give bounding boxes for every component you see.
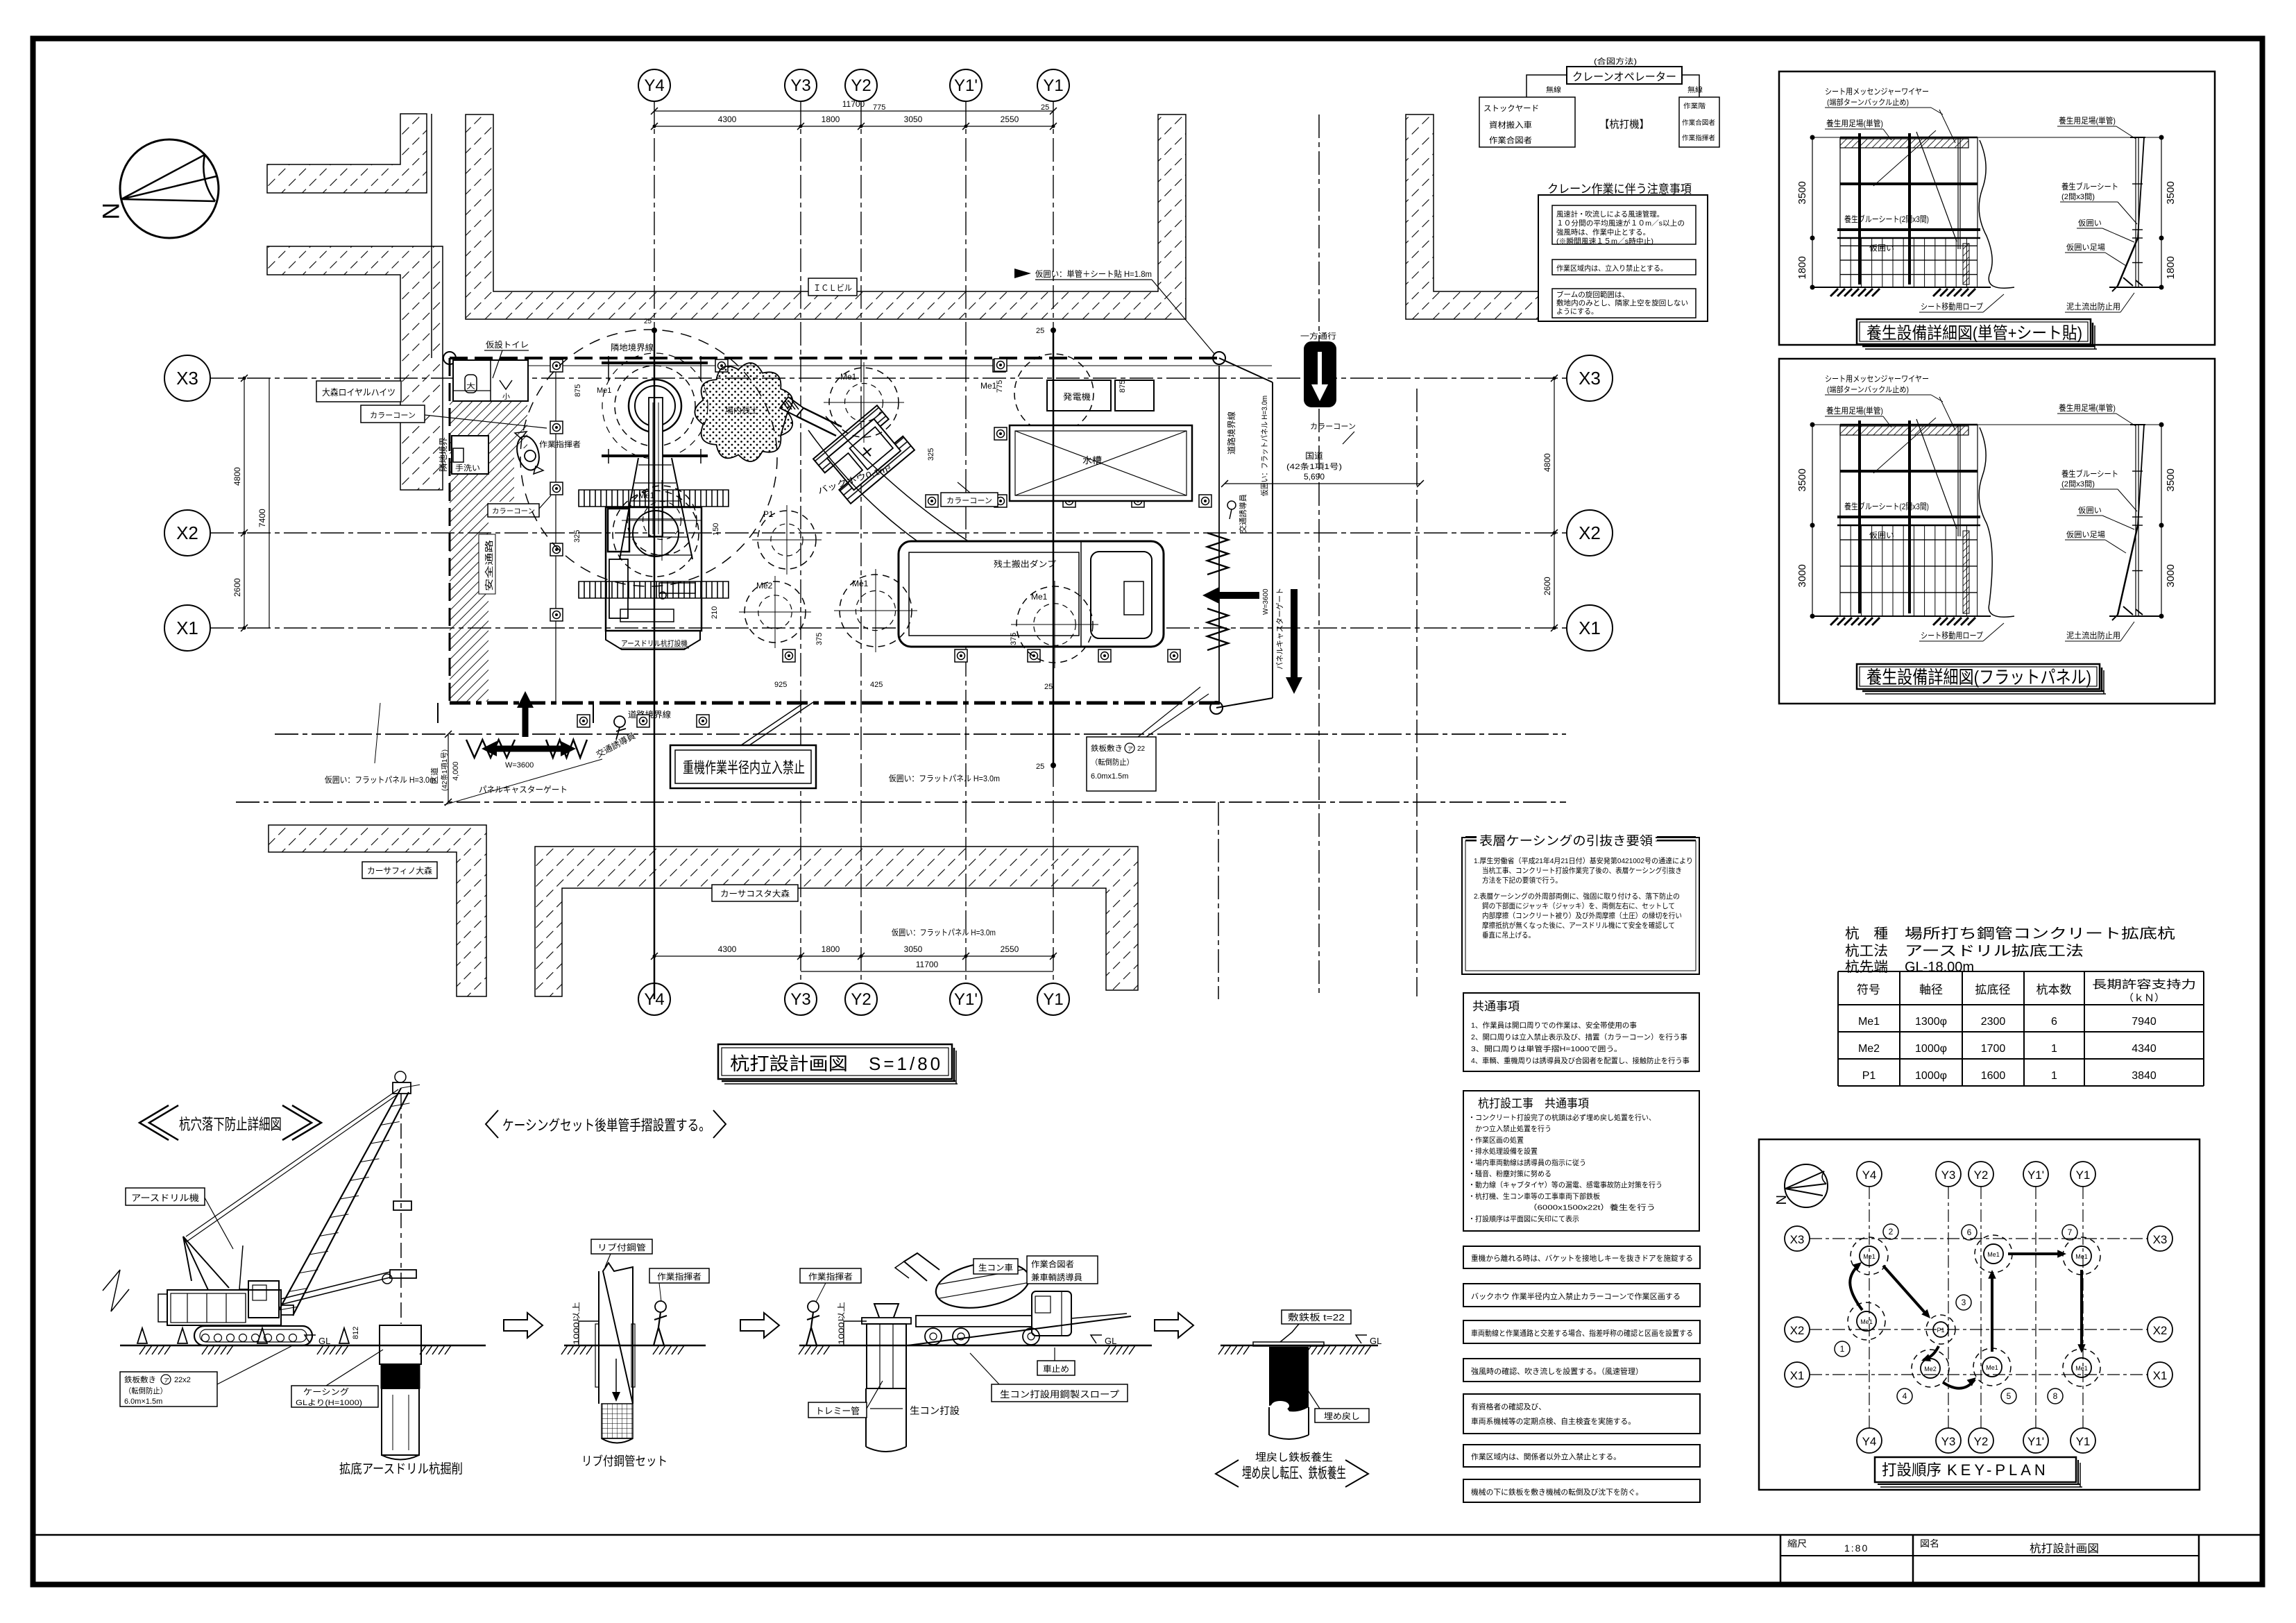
svg-text:Y4: Y4 (1862, 1435, 1877, 1448)
svg-text:4300: 4300 (718, 944, 737, 954)
svg-text:仮囲い：フラットパネル H=3.0m: 仮囲い：フラットパネル H=3.0m (325, 775, 436, 785)
svg-text:交通誘導員: 交通誘導員 (1238, 494, 1248, 533)
svg-text:養生用足場(単管): 養生用足場(単管) (2059, 402, 2116, 413)
svg-text:1000φ: 1000φ (1915, 1043, 1947, 1055)
svg-text:埋め戻し: 埋め戻し (1324, 1411, 1360, 1421)
svg-text:1600: 1600 (1981, 1070, 2006, 1082)
svg-text:1300φ: 1300φ (1915, 1016, 1947, 1028)
svg-text:Me1: Me1 (1987, 1251, 2000, 1258)
svg-text:１０分間の平均風速が１０m／s以上の: １０分間の平均風速が１０m／s以上の (1556, 219, 1685, 228)
svg-text:強風時は、作業中止とする。: 強風時は、作業中止とする。 (1556, 228, 1650, 237)
svg-text:P1: P1 (1937, 1327, 1944, 1334)
svg-text:2、開口周りは立入禁止表示及び、措置（カラーコーン）を行う事: 2、開口周りは立入禁止表示及び、措置（カラーコーン）を行う事 (1471, 1033, 1687, 1042)
svg-text:打設順序: 打設順序 (1882, 1461, 1941, 1479)
svg-text:重機から離れる時は、バケットを接地しキーを抜きドアを施錠する: 重機から離れる時は、バケットを接地しキーを抜きドアを施錠する (1471, 1253, 1693, 1263)
svg-text:杭打設計画図: 杭打設計画図 (730, 1053, 848, 1074)
svg-text:3000: 3000 (2165, 564, 2177, 587)
svg-text:2: 2 (1889, 1227, 1894, 1237)
svg-text:375: 375 (1010, 633, 1018, 645)
svg-text:2550: 2550 (1001, 114, 1019, 124)
svg-text:生コン車: 生コン車 (978, 1263, 1013, 1273)
svg-text:1700: 1700 (1981, 1043, 2006, 1055)
svg-text:W=3600: W=3600 (1262, 588, 1270, 615)
svg-text:X3: X3 (1790, 1233, 1805, 1246)
svg-text:22x2: 22x2 (174, 1376, 191, 1384)
svg-text:場所打ち鋼管コンクリート拡底杭: 場所打ち鋼管コンクリート拡底杭 (1905, 926, 2175, 942)
svg-text:3050: 3050 (904, 114, 923, 124)
svg-text:鉄板敷き: 鉄板敷き (1091, 743, 1123, 753)
svg-text:X1: X1 (1579, 618, 1601, 638)
svg-text:X2: X2 (1790, 1324, 1805, 1337)
svg-text:隣地境界: 隣地境界 (438, 437, 448, 472)
svg-text:・騒音、粉塵対策に努める: ・騒音、粉塵対策に努める (1468, 1169, 1551, 1178)
svg-text:GLより(H=1000): GLより(H=1000) (296, 1398, 362, 1407)
svg-text:X2: X2 (2153, 1324, 2168, 1337)
svg-text:・動力線（キャブタイヤ）等の漏電、感電事故防止対策を行う: ・動力線（キャブタイヤ）等の漏電、感電事故防止対策を行う (1468, 1180, 1663, 1189)
svg-text:1、作業員は開口周りでの作業は、安全帯使用の事: 1、作業員は開口周りでの作業は、安全帯使用の事 (1471, 1021, 1637, 1030)
svg-text:風速計・吹流しによる風速管理。: 風速計・吹流しによる風速管理。 (1556, 210, 1664, 219)
svg-text:7: 7 (2068, 1227, 2073, 1237)
svg-text:バックホウ 作業半径内立入禁止カラーコーンで作業区画する: バックホウ 作業半径内立入禁止カラーコーンで作業区画する (1471, 1291, 1681, 1301)
svg-text:符号: 符号 (1857, 983, 1880, 996)
svg-text:425: 425 (870, 681, 883, 689)
svg-text:作業指揮者: 作業指揮者 (1682, 134, 1715, 142)
svg-text:仮囲い：フラットパネル H=3.0m: 仮囲い：フラットパネル H=3.0m (1260, 396, 1269, 496)
svg-text:養生設備詳細図(単管+シート貼): 養生設備詳細図(単管+シート貼) (1866, 324, 2082, 343)
svg-text:1800: 1800 (822, 944, 840, 954)
svg-text:アースドリル拡底工法: アースドリル拡底工法 (1905, 943, 2084, 959)
svg-text:925: 925 (774, 681, 787, 689)
svg-text:（転倒防止）: （転倒防止） (124, 1386, 167, 1395)
svg-text:Me1: Me1 (2075, 1253, 2088, 1260)
svg-text:1: 1 (1840, 1344, 1845, 1354)
svg-text:1800: 1800 (1796, 256, 1808, 279)
svg-text:仮囲い足場: 仮囲い足場 (2066, 530, 2105, 539)
svg-text:Y3: Y3 (790, 76, 810, 95)
svg-text:6: 6 (2051, 1016, 2057, 1028)
svg-text:泥土流出防止用: 泥土流出防止用 (2066, 301, 2120, 312)
svg-text:資材搬入車: 資材搬入車 (1489, 120, 1532, 130)
svg-text:3500: 3500 (2165, 181, 2177, 204)
svg-text:Y1: Y1 (1043, 990, 1063, 1009)
svg-text:仮囲い：単管＋シート貼 H=1.8m: 仮囲い：単管＋シート貼 H=1.8m (1035, 269, 1152, 279)
svg-text:2600: 2600 (232, 578, 242, 597)
svg-text:作業指揮者: 作業指揮者 (657, 1271, 701, 1282)
svg-text:・排水処理設備を設置: ・排水処理設備を設置 (1468, 1147, 1538, 1156)
svg-text:Y2: Y2 (851, 76, 871, 95)
svg-text:杭先端: 杭先端 (1845, 959, 1888, 975)
svg-text:1:80: 1:80 (1844, 1543, 1869, 1554)
svg-text:S=1/80: S=1/80 (869, 1053, 943, 1074)
svg-text:敷地内のみとし、隣家上空を旋回しない: 敷地内のみとし、隣家上空を旋回しない (1556, 298, 1688, 307)
svg-text:812: 812 (352, 1327, 360, 1339)
svg-text:養生ブルーシート(2間x3間): 養生ブルーシート(2間x3間) (1844, 501, 1929, 511)
svg-text:縮尺: 縮尺 (1787, 1538, 1807, 1549)
svg-text:6.0mx1.5m: 6.0mx1.5m (1091, 772, 1128, 781)
svg-text:875: 875 (574, 384, 582, 397)
svg-text:隣地境界線: 隣地境界線 (611, 342, 654, 352)
svg-text:長期許容支持力: 長期許容支持力 (2092, 978, 2196, 991)
svg-text:1800: 1800 (2165, 256, 2177, 279)
svg-text:残土搬出ダンプ: 残土搬出ダンプ (994, 559, 1056, 569)
svg-text:3500: 3500 (1796, 468, 1808, 491)
svg-text:水槽: 水槽 (1082, 455, 1102, 466)
svg-text:カラーコーン: カラーコーン (492, 507, 535, 516)
svg-text:210: 210 (711, 606, 719, 619)
svg-text:GL-18.00m: GL-18.00m (1905, 960, 1974, 975)
svg-text:3840: 3840 (2132, 1070, 2157, 1082)
svg-text:Me1: Me1 (1986, 1364, 1998, 1371)
svg-text:(42条1項1号): (42条1項1号) (1286, 461, 1342, 471)
svg-text:Y1': Y1' (954, 76, 978, 95)
svg-text:(42条1項1号): (42条1項1号) (440, 749, 449, 791)
svg-text:シート移動用ロープ: シート移動用ロープ (1921, 302, 1983, 312)
svg-text:W=3600: W=3600 (505, 761, 534, 770)
svg-text:Me1: Me1 (980, 381, 997, 391)
svg-text:・コンクリート打設完了の杭頭は必ず埋め戻し処置を行い、: ・コンクリート打設完了の杭頭は必ず埋め戻し処置を行い、 (1468, 1113, 1656, 1122)
svg-text:(端部ターンバックル止め): (端部ターンバックル止め) (1827, 384, 1909, 394)
svg-text:機械の下に鉄板を敷き機械の転倒及び沈下を防ぐ。: 機械の下に鉄板を敷き機械の転倒及び沈下を防ぐ。 (1471, 1487, 1643, 1497)
svg-text:ア: ア (1128, 746, 1133, 752)
svg-text:・作業区画の処置: ・作業区画の処置 (1468, 1135, 1524, 1144)
svg-text:一方通行: 一方通行 (1300, 331, 1336, 341)
svg-text:表層ケーシングの引抜き要領: 表層ケーシングの引抜き要領 (1479, 834, 1653, 848)
svg-text:ブームの旋回範囲は、: ブームの旋回範囲は、 (1556, 290, 1629, 299)
svg-text:Y1': Y1' (954, 990, 978, 1009)
svg-text:11700: 11700 (916, 960, 939, 969)
svg-text:4,000: 4,000 (452, 761, 460, 781)
svg-text:Y1: Y1 (2076, 1169, 2091, 1182)
svg-text:作業合図者: 作業合図者 (1682, 119, 1715, 127)
svg-text:道路境界線: 道路境界線 (1226, 411, 1236, 454)
svg-text:鍔の下部面にジャッキ（ジャッキ）を、両側左右に、セットして: 鍔の下部面にジャッキ（ジャッキ）を、両側左右に、セットして (1482, 901, 1675, 910)
svg-text:GL: GL (1105, 1336, 1116, 1346)
svg-text:養生設備詳細図(フラットパネル): 養生設備詳細図(フラットパネル) (1866, 667, 2091, 688)
svg-text:養生用足場(単管): 養生用足場(単管) (1826, 405, 1883, 416)
svg-text:仮囲い: 仮囲い (2078, 506, 2102, 515)
svg-text:Me1: Me1 (638, 491, 655, 500)
svg-text:杭 種: 杭 種 (1845, 926, 1888, 942)
svg-text:無線: 無線 (1687, 85, 1703, 94)
svg-text:X3: X3 (2153, 1233, 2168, 1246)
svg-text:X3: X3 (1579, 368, 1601, 389)
svg-text:Me2: Me2 (1924, 1366, 1937, 1373)
svg-text:ケーシングセット後単管手摺設置する。: ケーシングセット後単管手摺設置する。 (502, 1118, 711, 1134)
svg-text:Me1: Me1 (840, 372, 857, 382)
svg-text:Y1': Y1' (2027, 1169, 2044, 1182)
svg-text:Me1: Me1 (2075, 1365, 2088, 1372)
svg-text:車両系機械等の定期点検、自主検査を実施する。: 車両系機械等の定期点検、自主検査を実施する。 (1471, 1416, 1635, 1426)
svg-text:Me2: Me2 (1858, 1043, 1880, 1055)
svg-text:325: 325 (573, 530, 581, 543)
svg-text:クレーン作業に伴う注意事項: クレーン作業に伴う注意事項 (1547, 182, 1692, 196)
svg-text:安全通路: 安全通路 (484, 540, 494, 591)
svg-text:Y3: Y3 (1941, 1169, 1956, 1182)
svg-text:Y2: Y2 (851, 990, 871, 1009)
svg-text:(端部ターンバックル止め): (端部ターンバックル止め) (1827, 97, 1909, 107)
svg-text:Y1: Y1 (2076, 1435, 2091, 1448)
svg-text:4340: 4340 (2132, 1043, 2157, 1055)
svg-text:発電機: 発電機 (1063, 391, 1091, 402)
svg-text:トレミー管: トレミー管 (815, 1406, 860, 1416)
svg-text:当杭工事、コンクリート打設作業完了後の、表層ケーシング引抜き: 当杭工事、コンクリート打設作業完了後の、表層ケーシング引抜き (1482, 866, 1682, 875)
svg-text:6.0m×1.5m: 6.0m×1.5m (124, 1397, 162, 1406)
svg-text:22: 22 (1137, 745, 1146, 753)
svg-text:軸径: 軸径 (1919, 983, 1943, 996)
svg-text:KEY-PLAN: KEY-PLAN (1947, 1461, 2049, 1479)
svg-text:垂直に吊上げる。: 垂直に吊上げる。 (1482, 931, 1535, 940)
svg-text:作業合図者: 作業合図者 (1031, 1259, 1074, 1269)
svg-text:GL: GL (318, 1336, 330, 1346)
svg-text:シート用メッセンジャーワイヤー: シート用メッセンジャーワイヤー (1825, 374, 1929, 384)
svg-text:カーサフィノ大森: カーサフィノ大森 (367, 865, 432, 876)
svg-text:方法を下記の要領で行う。: 方法を下記の要領で行う。 (1482, 876, 1562, 885)
svg-text:カラーコーン: カラーコーン (370, 411, 416, 420)
svg-text:Me1: Me1 (1860, 1318, 1873, 1325)
svg-text:アースドリル機: アースドリル機 (131, 1193, 199, 1203)
svg-text:875: 875 (1119, 380, 1127, 393)
svg-text:Y2: Y2 (1974, 1435, 1989, 1448)
svg-text:仮囲い：フラットパネル H=3.0m: 仮囲い：フラットパネル H=3.0m (889, 774, 1000, 783)
svg-text:4800: 4800 (1542, 453, 1552, 472)
svg-text:・杭打機、生コン車等の工事車両下部鉄板: ・杭打機、生コン車等の工事車両下部鉄板 (1468, 1191, 1600, 1200)
svg-text:拡底径: 拡底径 (1975, 983, 2011, 996)
svg-text:2550: 2550 (1001, 944, 1019, 954)
svg-text:（6000x1500x22t）養生を行う: （6000x1500x22t）養生を行う (1468, 1203, 1656, 1212)
svg-text:シート用メッセンジャーワイヤー: シート用メッセンジャーワイヤー (1825, 87, 1929, 96)
svg-text:7400: 7400 (257, 509, 267, 527)
svg-text:P1: P1 (763, 509, 774, 519)
svg-text:Me1: Me1 (1863, 1253, 1876, 1260)
svg-text:3500: 3500 (2165, 468, 2177, 491)
svg-text:1: 1 (2051, 1070, 2057, 1082)
svg-text:カーサコスタ大森: カーサコスタ大森 (720, 888, 790, 899)
svg-text:8: 8 (2053, 1391, 2058, 1401)
svg-text:杭工法: 杭工法 (1845, 943, 1888, 959)
svg-text:有資格者の確認及び、: 有資格者の確認及び、 (1471, 1402, 1546, 1411)
svg-text:6: 6 (1967, 1227, 1972, 1237)
svg-text:パネルキャスターゲート: パネルキャスターゲート (479, 785, 568, 794)
svg-text:Me2: Me2 (756, 581, 773, 590)
svg-text:鉄板敷き: 鉄板敷き (124, 1375, 156, 1384)
svg-text:Me1: Me1 (597, 386, 611, 395)
svg-text:強風時の確認、吹き流しを設置する。（風速管理）: 強風時の確認、吹き流しを設置する。（風速管理） (1471, 1366, 1643, 1376)
svg-text:リブ付鋼管セット: リブ付鋼管セット (581, 1454, 667, 1468)
svg-text:X1: X1 (2153, 1369, 2168, 1382)
svg-text:カラーコーン: カラーコーン (946, 496, 992, 505)
svg-text:【杭打機】: 【杭打機】 (1599, 119, 1649, 130)
svg-text:生コン打設用鋼製スロープ: 生コン打設用鋼製スロープ (1000, 1389, 1119, 1400)
svg-text:25: 25 (1036, 327, 1044, 335)
svg-text:杭穴落下防止詳細図: 杭穴落下防止詳細図 (179, 1116, 282, 1133)
svg-text:Me1: Me1 (1031, 592, 1048, 602)
svg-text:手洗い: 手洗い (455, 463, 480, 473)
svg-text:775: 775 (996, 380, 1004, 393)
svg-text:4300: 4300 (718, 114, 737, 124)
svg-text:3、開口周りは単管手摺H=1000で囲う。: 3、開口周りは単管手摺H=1000で囲う。 (1471, 1044, 1622, 1053)
svg-text:7940: 7940 (2132, 1016, 2157, 1028)
svg-text:養生ブルーシート: 養生ブルーシート (2061, 468, 2118, 479)
svg-text:325: 325 (927, 448, 935, 461)
svg-text:・打設順序は平面図に矢印にて表示: ・打設順序は平面図に矢印にて表示 (1468, 1214, 1579, 1223)
svg-text:1000以上: 1000以上 (837, 1302, 846, 1345)
svg-text:生コン打設: 生コン打設 (910, 1405, 960, 1416)
svg-text:クレーンオペレーター: クレーンオペレーター (1572, 71, 1676, 83)
svg-text:埋め戻し転圧、鉄板養生: 埋め戻し転圧、鉄板養生 (1242, 1465, 1346, 1481)
svg-text:敷鉄板 t=22: 敷鉄板 t=22 (1288, 1312, 1345, 1323)
svg-text:拡底アースドリル杭掘削: 拡底アースドリル杭掘削 (339, 1461, 463, 1477)
svg-text:作業指揮者: 作業指揮者 (808, 1271, 853, 1282)
svg-text:摩擦抵抗が無くなった後に、アースドリル機にて安全を確認して: 摩擦抵抗が無くなった後に、アースドリル機にて安全を確認して (1482, 921, 1675, 930)
svg-text:4800: 4800 (232, 467, 242, 486)
svg-text:(※瞬間風速１５m／s時中止): (※瞬間風速１５m／s時中止) (1556, 237, 1653, 246)
svg-text:Y4: Y4 (644, 76, 664, 95)
svg-text:(2間x3間): (2間x3間) (2061, 479, 2095, 488)
svg-text:リブ付鋼管: リブ付鋼管 (597, 1242, 646, 1252)
svg-text:共通事項: 共通事項 (1472, 1000, 1520, 1013)
svg-text:25: 25 (644, 318, 652, 325)
svg-text:11700: 11700 (842, 99, 865, 109)
svg-text:図名: 図名 (1920, 1538, 1939, 1549)
svg-text:1.厚生労働省（平成21年4月21日付）基安発第042100: 1.厚生労働省（平成21年4月21日付）基安発第0421002号の通達により (1474, 856, 1693, 865)
svg-text:内部摩擦（コンクリート被り）及び外周摩擦（土圧）の縁切を行い: 内部摩擦（コンクリート被り）及び外周摩擦（土圧）の縁切を行い (1482, 911, 1682, 920)
svg-text:埋戻し鉄板養生: 埋戻し鉄板養生 (1255, 1451, 1333, 1463)
svg-text:無線: 無線 (1546, 85, 1561, 94)
svg-text:Y1': Y1' (2027, 1435, 2044, 1448)
svg-text:杭打設計画図: 杭打設計画図 (2030, 1543, 2099, 1555)
svg-text:大森ロイヤルハイツ: 大森ロイヤルハイツ (322, 387, 396, 398)
svg-text:養生用足場(単管): 養生用足場(単管) (1826, 118, 1883, 128)
svg-text:杭本数: 杭本数 (2036, 983, 2072, 996)
svg-text:1000以上: 1000以上 (572, 1302, 581, 1345)
svg-text:泥土流出防止用: 泥土流出防止用 (2066, 630, 2120, 640)
svg-text:仮囲い: 仮囲い (1869, 244, 1894, 253)
svg-text:4、車輌、重機周りは誘導員及び合図者を配置し、接触防止を行う: 4、車輌、重機周りは誘導員及び合図者を配置し、接触防止を行う事 (1471, 1056, 1690, 1065)
svg-text:X3: X3 (176, 368, 198, 389)
svg-text:車両動線と作業通路と交差する場合、指差呼称の確認と区画を設置: 車両動線と作業通路と交差する場合、指差呼称の確認と区画を設置する (1471, 1328, 1693, 1338)
svg-text:N: N (97, 203, 124, 220)
svg-text:Y1: Y1 (1043, 76, 1063, 95)
svg-text:4: 4 (1903, 1391, 1907, 1401)
svg-text:仮設トイレ: 仮設トイレ (486, 339, 529, 350)
svg-text:カラーコーン: カラーコーン (1310, 422, 1356, 431)
svg-text:(合図方法): (合図方法) (1594, 56, 1637, 66)
svg-text:仮囲い足場: 仮囲い足場 (2066, 243, 2105, 252)
svg-text:Y3: Y3 (790, 990, 810, 1009)
svg-text:ようにする。: ようにする。 (1556, 307, 1598, 316)
svg-text:Me1: Me1 (852, 579, 869, 588)
svg-text:X1: X1 (1790, 1369, 1805, 1382)
svg-text:兼車輌誘導員: 兼車輌誘導員 (1031, 1273, 1082, 1282)
svg-text:・場内車両動線は誘導員の指示に従う: ・場内車両動線は誘導員の指示に従う (1468, 1158, 1586, 1167)
svg-text:シート移動用ロープ: シート移動用ロープ (1921, 631, 1983, 640)
svg-text:仮囲い: 仮囲い (2078, 219, 2102, 228)
svg-text:3500: 3500 (1796, 181, 1808, 204)
svg-text:2.表層ケーシングの外周部両側に、強固に取り付ける、落下防止: 2.表層ケーシングの外周部両側に、強固に取り付ける、落下防止の (1474, 892, 1680, 901)
svg-text:3: 3 (1962, 1298, 1966, 1307)
svg-text:Y2: Y2 (1974, 1169, 1989, 1182)
svg-text:(2間x3間): (2間x3間) (2061, 192, 2095, 201)
svg-text:仮囲い：フラットパネル H=3.0m: 仮囲い：フラットパネル H=3.0m (892, 928, 996, 937)
svg-text:N: N (1773, 1195, 1788, 1205)
svg-text:かつ立入禁止処置を行う: かつ立入禁止処置を行う (1468, 1124, 1551, 1133)
svg-text:国道: 国道 (1305, 451, 1323, 461)
svg-text:養生ブルーシート: 養生ブルーシート (2061, 181, 2118, 192)
svg-text:Y4: Y4 (1862, 1169, 1877, 1182)
svg-text:（ｋＮ）: （ｋＮ） (2123, 992, 2165, 1003)
svg-text:ＩＣＬビル: ＩＣＬビル (813, 283, 852, 293)
svg-text:X2: X2 (1579, 522, 1601, 543)
svg-text:杭打設工事 共通事項: 杭打設工事 共通事項 (1478, 1097, 1589, 1110)
svg-text:25: 25 (1036, 763, 1044, 771)
svg-text:775: 775 (873, 103, 885, 112)
svg-text:1000φ: 1000φ (1915, 1070, 1947, 1082)
svg-text:（転倒防止）: （転倒防止） (1091, 757, 1134, 767)
svg-text:ケーシング: ケーシング (303, 1387, 349, 1397)
svg-text:3050: 3050 (904, 944, 923, 954)
svg-text:5: 5 (2007, 1391, 2012, 1401)
svg-text:GL: GL (1370, 1336, 1381, 1346)
svg-text:作業区域内は、関係者以外立入禁止とする。: 作業区域内は、関係者以外立入禁止とする。 (1471, 1452, 1621, 1461)
svg-text:150: 150 (712, 523, 720, 536)
svg-text:Y3: Y3 (1941, 1435, 1956, 1448)
svg-text:車止め: 車止め (1043, 1364, 1069, 1374)
svg-text:作業階: 作業階 (1683, 102, 1706, 110)
svg-text:2300: 2300 (1981, 1016, 2006, 1028)
svg-text:3000: 3000 (1796, 564, 1808, 587)
svg-text:2600: 2600 (1542, 577, 1552, 595)
svg-text:X1: X1 (176, 618, 198, 638)
svg-text:P1: P1 (1862, 1070, 1876, 1082)
svg-text:パネルキャスターゲート: パネルキャスターゲート (1275, 588, 1284, 670)
svg-text:養生用足場(単管): 養生用足場(単管) (2059, 115, 2116, 126)
svg-text:1800: 1800 (822, 114, 840, 124)
svg-text:Me1: Me1 (1858, 1016, 1880, 1028)
svg-text:25: 25 (1044, 683, 1053, 691)
svg-text:作業合図者: 作業合図者 (1489, 135, 1532, 145)
svg-text:作業指揮者: 作業指揮者 (539, 439, 581, 449)
svg-text:仮囲い: 仮囲い (1869, 531, 1894, 540)
svg-text:大: 大 (466, 382, 475, 391)
svg-text:ア: ア (164, 1377, 169, 1384)
svg-text:重機作業半径内立入禁止: 重機作業半径内立入禁止 (683, 759, 805, 776)
svg-text:作業区域内は、立入り禁止とする。: 作業区域内は、立入り禁止とする。 (1556, 264, 1667, 273)
svg-text:養生ブルーシート(2間x3間): 養生ブルーシート(2間x3間) (1844, 214, 1929, 224)
svg-text:ストックヤード: ストックヤード (1483, 104, 1539, 113)
svg-text:25: 25 (1041, 103, 1049, 112)
svg-text:5,690: 5,690 (1304, 472, 1325, 482)
svg-text:場内残土: 場内残土 (725, 405, 758, 415)
svg-text:X2: X2 (176, 522, 198, 543)
svg-text:小: 小 (502, 393, 510, 401)
svg-text:375: 375 (815, 633, 824, 645)
svg-text:1: 1 (2051, 1043, 2057, 1055)
